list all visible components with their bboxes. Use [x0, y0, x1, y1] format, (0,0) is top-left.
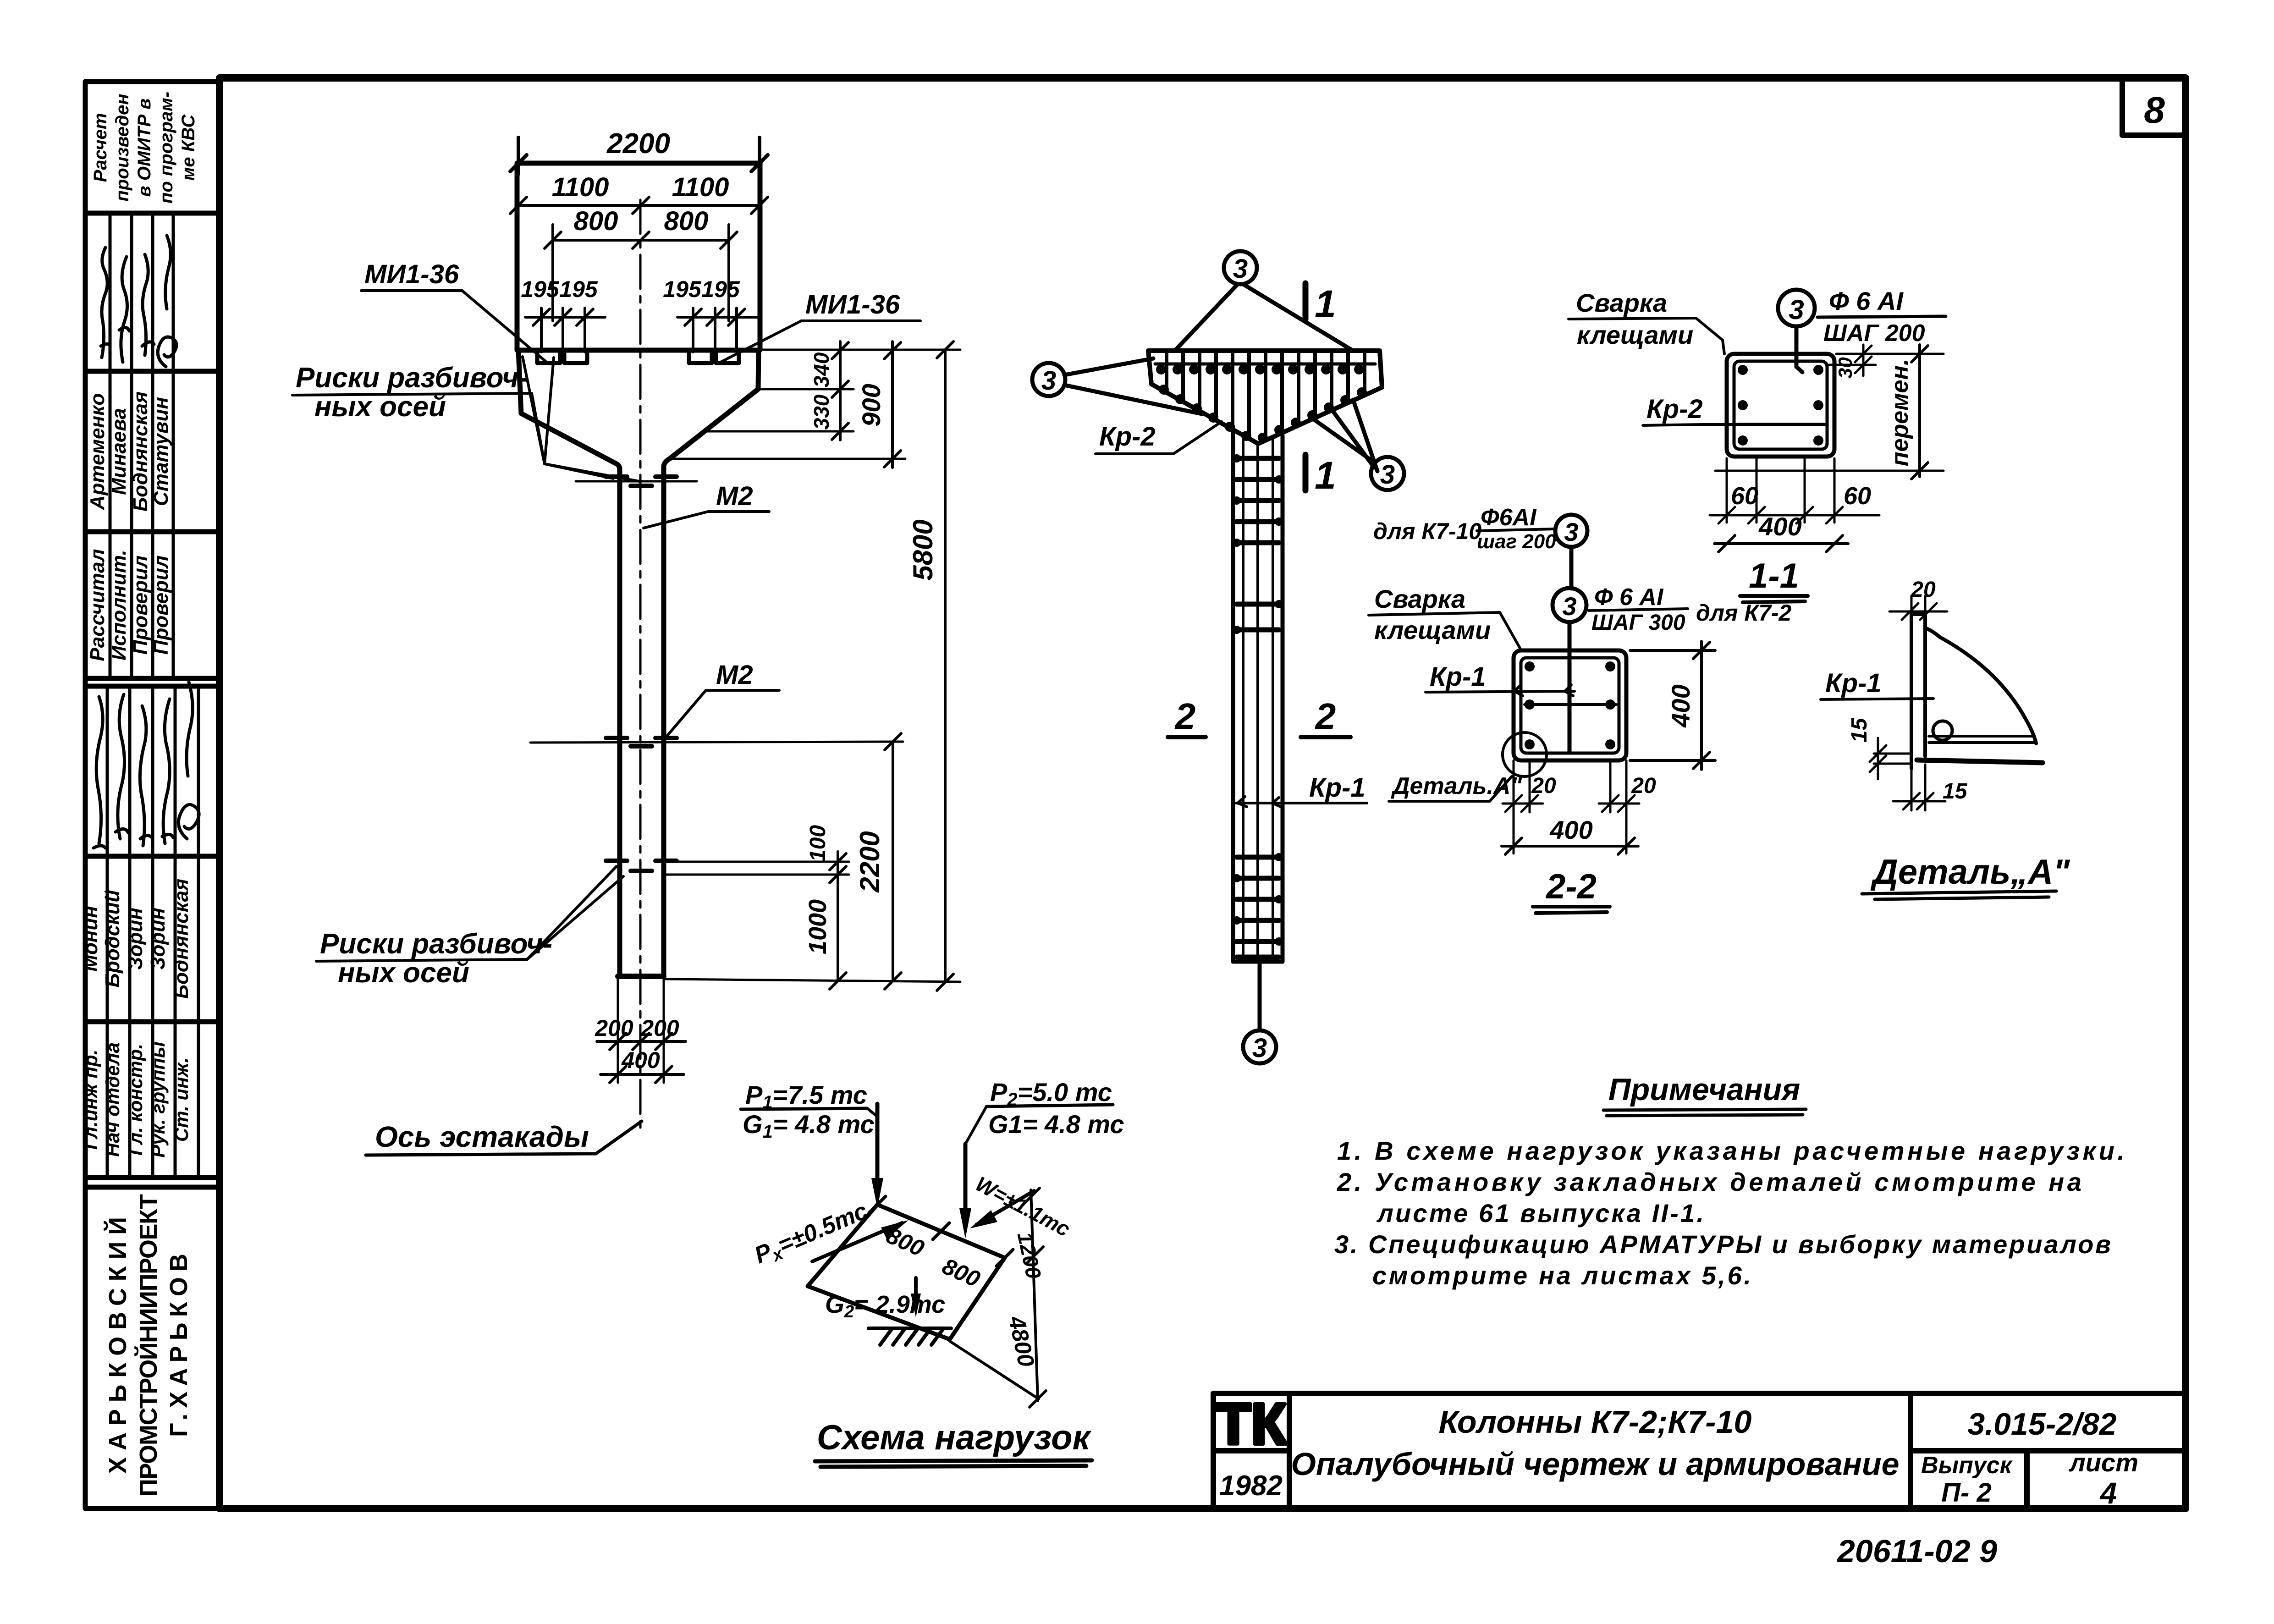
svg-text:100: 100 — [806, 825, 830, 862]
svg-text:Кр-1: Кр-1 — [1825, 668, 1882, 698]
svg-text:5800: 5800 — [908, 519, 938, 580]
svg-text:3: 3 — [1562, 592, 1576, 621]
svg-text:800: 800 — [938, 1253, 984, 1292]
svg-text:Кр-1: Кр-1 — [1430, 662, 1486, 692]
left stamp strip outline — [85, 82, 220, 1508]
svg-text:Рук. группы: Рук. группы — [147, 1041, 169, 1158]
extension line 340 — [760, 388, 853, 391]
risk thin line level 2 — [530, 742, 903, 743]
svg-text:200: 200 — [640, 1015, 679, 1041]
svg-text:2200: 2200 — [606, 128, 670, 160]
svg-text:Сварка: Сварка — [1576, 288, 1667, 317]
svg-text:Нач отдела: Нач отдела — [102, 1042, 123, 1157]
stamp signatures group 2 (cursive squiggles) — [94, 682, 199, 848]
leader fan риски upper — [292, 357, 639, 481]
shaft rebar verticals — [1243, 433, 1273, 960]
svg-text:G1= 4.8 тс: G1= 4.8 тс — [743, 1110, 875, 1142]
label риски разбивочных осей upper — [296, 362, 528, 423]
quad mid ticks 800 800 — [869, 1196, 1013, 1266]
svg-text:смотрите на листах 5,6.: смотрите на листах 5,6. — [1372, 1261, 1751, 1290]
svg-text:ХАРЬКОВСКИЙ: ХАРЬКОВСКИЙ — [104, 1217, 132, 1474]
svg-text:ШАГ 200: ШАГ 200 — [1823, 320, 1925, 347]
bottom extension line — [666, 979, 960, 982]
stirrup weld blobs — [1233, 454, 1283, 946]
dim 5800 vertical — [937, 341, 953, 991]
svg-text:Риски разбивоч-: Риски разбивоч- — [320, 928, 552, 960]
svg-text:3: 3 — [1252, 1033, 1267, 1063]
dim 20 (detail A) — [1889, 596, 1947, 623]
svg-text:330: 330 — [809, 394, 833, 429]
circled 3 top of reinforcement — [1175, 251, 1352, 350]
circled 3 right of head — [1312, 400, 1404, 490]
axonometric head plan quad — [808, 1205, 1005, 1339]
force arrow P2 — [964, 1144, 968, 1223]
svg-text:1-1: 1-1 — [1749, 556, 1799, 595]
bottom dims extensions — [618, 979, 664, 1083]
svg-text:400: 400 — [621, 1047, 660, 1073]
circled 3 upper (2-2) — [1555, 515, 1587, 589]
section 1-1 stirrup inner — [1734, 361, 1827, 449]
svg-text:340: 340 — [809, 352, 833, 387]
svg-text:4: 4 — [2099, 1476, 2117, 1510]
svg-text:Кр-2: Кр-2 — [1646, 394, 1703, 424]
svg-text:Ст. инж.: Ст. инж. — [171, 1057, 192, 1142]
svg-text:Исполнит.: Исполнит. — [108, 550, 130, 660]
svg-text:900: 900 — [857, 384, 886, 426]
circled 3 lower (2-2) — [1553, 588, 1586, 752]
svg-text:Монин: Монин — [79, 906, 102, 972]
dim 30 (1-1) — [1829, 345, 1944, 376]
svg-text:Колонны К7-2;К7-10: Колонны К7-2;К7-10 — [1439, 1404, 1752, 1440]
svg-text:Кр-1: Кр-1 — [1309, 773, 1366, 803]
svg-text:1100: 1100 — [552, 172, 609, 202]
svg-text:3.015-2/82: 3.015-2/82 — [1967, 1407, 2116, 1442]
svg-text:3. Спецификацию АРМАТУРЫ и выб: 3. Спецификацию АРМАТУРЫ и выборку матер… — [1334, 1230, 2111, 1259]
stamp row: names group 1 (rotated) — [86, 391, 172, 512]
svg-text:195: 195 — [559, 276, 598, 302]
svg-text:195: 195 — [701, 276, 740, 302]
svg-text:перемен.: перемен. — [1887, 359, 1913, 467]
svg-text:3: 3 — [1564, 517, 1578, 546]
W arrow — [976, 1191, 1034, 1225]
svg-text:1: 1 — [1315, 454, 1336, 497]
risk marks level 3 — [606, 861, 677, 871]
reinforced head outline — [1148, 351, 1382, 444]
ground hatch — [869, 1328, 951, 1345]
dim 400 bottom — [600, 1066, 684, 1083]
leader fan риски lower — [316, 866, 623, 961]
stamp row: roles group 1 (rotated) — [86, 549, 172, 661]
svg-text:Артеменко: Артеменко — [86, 393, 109, 510]
svg-text:лист: лист — [2068, 1448, 2138, 1477]
dim 15 left (detail A) — [1870, 738, 1909, 779]
svg-text:Зорин: Зорин — [147, 908, 169, 969]
G2 arrow — [914, 1278, 918, 1305]
label Сварка клещами (1-1) — [1576, 288, 1693, 349]
section 1-1 rebar dots — [1738, 365, 1823, 446]
svg-text:Ф 6 АІ: Ф 6 АІ — [1594, 584, 1664, 611]
svg-text:Примечания: Примечания — [1608, 1072, 1800, 1107]
svg-text:2: 2 — [1174, 696, 1196, 737]
svg-text:G1= 4.8 тс: G1= 4.8 тс — [988, 1110, 1124, 1139]
shaft stirrup marks — [1237, 458, 1279, 957]
svg-text:Опалубочный чертеж и армирован: Опалубочный чертеж и армирование — [1291, 1446, 1899, 1482]
svg-text:15: 15 — [1847, 717, 1872, 743]
sheet outer frame — [220, 78, 2186, 1508]
svg-text:1100: 1100 — [672, 172, 729, 202]
dim 20/20 (2-2) — [1503, 760, 1639, 853]
svg-text:МИ1-36: МИ1-36 — [805, 290, 900, 319]
svg-text:Боднянская: Боднянская — [129, 391, 152, 512]
column bottom edge — [618, 974, 664, 979]
dim 60/60 (1-1) — [1710, 458, 1879, 523]
head top rebar line — [1155, 363, 1375, 366]
dim 400 right (2-2) — [1630, 641, 1715, 770]
embedded plate МИ1-36 right pair — [689, 351, 739, 363]
svg-text:произведен: произведен — [112, 94, 132, 201]
embedded plate МИ1-36 left pair — [537, 351, 587, 363]
svg-text:ТК: ТК — [1216, 1392, 1287, 1456]
svg-text:Зорин: Зорин — [124, 908, 147, 969]
svg-text:G2= 2.9тс: G2= 2.9тс — [825, 1291, 945, 1321]
svg-text:М2: М2 — [716, 660, 753, 690]
svg-text:Бродский: Бродский — [101, 890, 124, 988]
svg-text:400: 400 — [1549, 815, 1592, 844]
svg-text:8: 8 — [2144, 89, 2165, 131]
svg-text:60: 60 — [1731, 482, 1758, 510]
svg-text:20611-02 9: 20611-02 9 — [1836, 1533, 1997, 1569]
svg-text:60: 60 — [1844, 482, 1871, 510]
section 1-1 mid horizontal rebar line — [1737, 423, 1824, 426]
svg-text:Статувин: Статувин — [150, 397, 172, 506]
svg-text:Кр-2: Кр-2 — [1099, 422, 1156, 451]
risk marks level 2 — [606, 738, 677, 746]
svg-text:20: 20 — [1631, 774, 1656, 798]
svg-text:Проверил: Проверил — [150, 556, 172, 655]
svg-text:в ОМИТР в: в ОМИТР в — [134, 99, 154, 197]
svg-text:3: 3 — [1233, 254, 1248, 284]
dim 2200 vertical — [885, 733, 901, 989]
stamp signatures group 1 (cursive squiggles) — [101, 236, 176, 367]
svg-text:30: 30 — [1834, 357, 1856, 379]
svg-text:3: 3 — [1789, 294, 1804, 325]
svg-text:2: 2 — [1315, 696, 1336, 737]
svg-text:Деталь„А": Деталь„А" — [1870, 853, 2070, 892]
dim 200/200 — [597, 1033, 686, 1050]
circled 3 above 1-1 — [1778, 290, 1815, 372]
dim 15 bottom (detail A) — [1893, 765, 1945, 810]
dim 195 195 left — [525, 308, 605, 352]
circled 3 left of head — [1032, 358, 1202, 414]
svg-text:Гл. констр.: Гл. констр. — [125, 1044, 146, 1156]
svg-text:Проверил: Проверил — [129, 556, 152, 655]
svg-text:20: 20 — [1911, 578, 1936, 602]
sheet number box 8 — [2122, 78, 2186, 135]
scheme right dim line — [950, 1188, 1046, 1407]
head comb rebar verticals — [1167, 353, 1365, 440]
detail A anchor circle — [1933, 721, 1952, 740]
haunch right inner thin line — [674, 391, 755, 455]
force arrow P1 — [875, 1104, 880, 1192]
section mark 1 lower — [1303, 455, 1309, 490]
bottom extension (1-1) — [1715, 470, 1944, 472]
stamp: institute name (rotated bold) — [104, 1194, 193, 1497]
stamp row: roles group 2 (rotated) — [80, 1041, 192, 1158]
detail A concrete curve — [1927, 629, 2036, 743]
svg-text:для К7-2: для К7-2 — [1696, 600, 1792, 626]
svg-text:по програм-: по програм- — [156, 92, 176, 204]
svg-text:Сварка: Сварка — [1374, 584, 1465, 613]
reinforced shaft outline — [1233, 427, 1283, 962]
svg-text:800: 800 — [664, 206, 709, 236]
label Сварка клещами (2-2) — [1374, 584, 1491, 644]
svg-text:Гл.инж пр.: Гл.инж пр. — [80, 1050, 101, 1150]
svg-text:195: 195 — [521, 276, 560, 302]
svg-text:200: 200 — [595, 1015, 633, 1041]
dim line 1100/1100 — [510, 197, 768, 214]
svg-text:Ось эстакады: Ось эстакады — [375, 1120, 589, 1153]
svg-text:20: 20 — [1531, 774, 1556, 798]
svg-text:3: 3 — [1041, 366, 1056, 396]
head stirrup bead dots slopes — [1159, 385, 1367, 443]
svg-text:М2: М2 — [716, 481, 753, 511]
svg-text:400: 400 — [1758, 512, 1801, 541]
head top right extension line — [761, 349, 960, 351]
stamp row: names group 2 (rotated) — [79, 879, 193, 999]
dim перемен (1-1) — [1911, 345, 1928, 479]
svg-text:Ф6АІ: Ф6АІ — [1481, 504, 1537, 531]
svg-text:2. Установку закладных деталей: 2. Установку закладных деталей смотрите … — [1337, 1167, 2081, 1196]
section 1-1 outer square — [1727, 354, 1834, 457]
svg-text:Схема нагрузок: Схема нагрузок — [817, 1418, 1092, 1457]
title block outline — [1213, 1393, 2186, 1508]
svg-text:3: 3 — [1380, 460, 1395, 490]
dim 100/1000 vertical — [830, 852, 846, 989]
section 2-2 rebar dots — [1525, 661, 1615, 749]
section 2-2 mid horizontal rebar line — [1525, 703, 1616, 706]
extension line 330 — [706, 430, 853, 433]
svg-text:1200: 1200 — [1013, 1230, 1046, 1281]
svg-text:Расчет: Расчет — [90, 113, 110, 182]
svg-text:Г.ХАРЬКОВ: Г.ХАРЬКОВ — [165, 1254, 193, 1437]
dim 330/340 vertical — [832, 341, 848, 440]
detail A bottom double lines — [1929, 736, 2035, 743]
svg-text:шаг 200: шаг 200 — [1477, 530, 1556, 553]
svg-text:Выпуск: Выпуск — [1921, 1452, 2013, 1479]
svg-text:ме КВС: ме КВС — [178, 114, 198, 181]
svg-text:1. В схеме нагрузок указаны ра: 1. В схеме нагрузок указаны расчетные на… — [1337, 1136, 2125, 1165]
stamp row: расчет произведен note (rotated) — [90, 92, 198, 204]
svg-text:клещами: клещами — [1374, 616, 1491, 644]
circled 3 bottom of shaft — [1243, 962, 1276, 1063]
left strip column separators lower group — [107, 686, 198, 1178]
svg-text:для К7-10: для К7-10 — [1373, 518, 1481, 544]
dim line 800/800 — [545, 225, 737, 321]
label риски разбивочных осей lower — [320, 928, 552, 989]
detail A plate verticals — [1911, 614, 1925, 768]
extension lines 100 dim — [666, 862, 849, 875]
head stirrup bead dots top — [1156, 364, 1364, 374]
svg-text:листе 61 выпуска ІІ-1.: листе 61 выпуска ІІ-1. — [1376, 1199, 1704, 1228]
svg-text:2-2: 2-2 — [1545, 867, 1597, 906]
column axis (dash-dot) — [639, 200, 642, 1128]
detail A circle mark — [1503, 732, 1547, 776]
column head outline — [517, 163, 760, 350]
dim 195 195 right — [677, 308, 757, 352]
dim 400 bottom (2-2) — [1502, 838, 1638, 854]
svg-text:1982: 1982 — [1219, 1470, 1283, 1502]
haunch left edge — [518, 350, 620, 976]
dim 900 vertical — [884, 341, 901, 468]
svg-text:ШАГ 300: ШАГ 300 — [1591, 611, 1685, 635]
svg-text:клещами: клещами — [1577, 320, 1693, 349]
svg-text:Ф 6 АІ: Ф 6 АІ — [1829, 286, 1904, 315]
svg-text:МИ1-36: МИ1-36 — [364, 259, 459, 289]
svg-text:ПРОМСТРОЙНИИПРОЕКТ: ПРОМСТРОЙНИИПРОЕКТ — [134, 1194, 162, 1497]
svg-text:1: 1 — [1315, 282, 1336, 325]
risk marks level 1 — [606, 477, 677, 486]
extension line 900 bottom — [667, 458, 905, 460]
svg-text:1000: 1000 — [804, 899, 831, 954]
svg-text:Боднянская: Боднянская — [170, 879, 193, 999]
section 2-2 outer square — [1514, 650, 1626, 760]
Px arrow — [812, 1223, 902, 1261]
svg-text:W=±1.1тс: W=±1.1тс — [972, 1172, 1074, 1241]
svg-text:15: 15 — [1943, 779, 1968, 804]
detail A bottom thick plate — [1917, 760, 2043, 763]
left strip column separators upper group — [110, 213, 173, 678]
svg-text:Риски разбивоч-: Риски разбивоч- — [296, 362, 528, 394]
dim 400 (1-1) — [1714, 535, 1848, 552]
risk thin line level 1 — [576, 480, 697, 483]
haunch right edge — [664, 350, 759, 976]
svg-text:Минаева: Минаева — [108, 408, 130, 495]
svg-text:800: 800 — [574, 206, 618, 236]
svg-text:П- 2: П- 2 — [1941, 1478, 1991, 1508]
svg-text:Рассчитал: Рассчитал — [86, 549, 109, 661]
section 2-2 stirrup inner — [1521, 658, 1619, 753]
section mark 1 upper — [1303, 283, 1309, 319]
dim 2200 ticks on head top — [510, 138, 768, 174]
svg-text:400: 400 — [1666, 684, 1695, 727]
svg-text:195: 195 — [663, 276, 702, 302]
svg-text:2200: 2200 — [854, 831, 885, 892]
